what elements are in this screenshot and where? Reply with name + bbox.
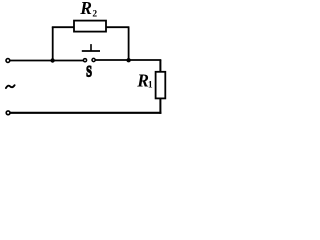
wire top main left	[10, 60, 84, 62]
node junction right	[126, 58, 130, 62]
resistor R1 box	[156, 72, 166, 99]
AC source tilde	[6, 85, 15, 88]
wire right vertical upper	[159, 60, 161, 72]
wire branch top-left	[52, 26, 75, 28]
switch S bar	[82, 50, 100, 52]
svg-text:1: 1	[148, 81, 153, 91]
switch S contact right	[92, 58, 95, 61]
switch S contact left	[83, 59, 86, 62]
wire branch right vertical	[128, 27, 130, 60]
wire branch left vertical	[52, 27, 54, 60]
svg-text:S: S	[86, 62, 92, 80]
node junction left	[50, 58, 54, 62]
wire top main right	[95, 59, 161, 61]
wire right vertical lower	[159, 98, 161, 113]
terminal bottom-left	[6, 111, 10, 115]
switch S stem	[90, 44, 92, 51]
resistor R2 box	[74, 21, 106, 32]
svg-text:2: 2	[92, 9, 97, 19]
svg-text:R: R	[79, 0, 92, 18]
wire branch top-right	[106, 26, 130, 28]
wire bottom main	[11, 112, 162, 114]
terminal top-left	[6, 59, 10, 63]
